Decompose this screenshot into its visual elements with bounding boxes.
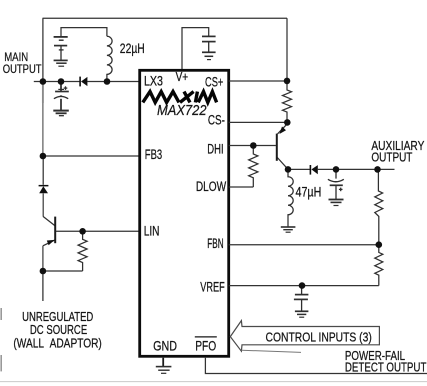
capacitor C3 (V+ bypass) xyxy=(202,36,216,59)
svg-text:V+: V+ xyxy=(176,70,189,84)
wire left rail to FB3 node xyxy=(42,103,44,156)
transistor Q1 emitter diagonal xyxy=(43,240,55,246)
svg-text:47µH: 47µH xyxy=(296,185,322,200)
svg-text:DHI: DHI xyxy=(207,141,223,156)
svg-text:CONTROL INPUTS (3): CONTROL INPUTS (3) xyxy=(266,329,372,344)
wire left rail from output node down xyxy=(43,82,140,185)
svg-text:FBN: FBN xyxy=(207,236,223,251)
node VREF cap xyxy=(299,282,306,289)
node LIN resistor top xyxy=(79,228,86,235)
svg-text:VREF: VREF xyxy=(200,279,225,294)
capacitor C3 plates xyxy=(202,35,216,37)
wire C4 stem xyxy=(335,169,337,178)
node collector Q2 xyxy=(285,166,292,173)
svg-text:22µH: 22µH xyxy=(120,41,145,56)
wire C2 stem xyxy=(60,82,62,92)
transistor Q1 collector diagonal xyxy=(43,216,55,225)
capacitor C4 plates xyxy=(328,179,344,181)
ground below GND pin xyxy=(156,366,172,368)
transistor Q1 (PNP pass transistor) xyxy=(43,193,55,271)
ground below C4 xyxy=(329,199,344,201)
MAXIM logo xyxy=(143,92,217,103)
node aux cap xyxy=(333,166,340,173)
node cap C2 top xyxy=(58,78,65,85)
wire cap-to-inductor top link xyxy=(61,28,107,37)
node aux output xyxy=(374,166,381,173)
inductor L2 47uH xyxy=(288,169,293,226)
wire C3 stem xyxy=(208,42,210,53)
wire C4 lower stem xyxy=(335,185,337,199)
wire collector node to diode D3 xyxy=(288,168,310,170)
svg-text:(WALL ADAPTOR): (WALL ADAPTOR) xyxy=(13,336,101,351)
wire DHI pin line xyxy=(229,145,276,147)
node emitter bottom xyxy=(40,268,47,275)
wire FBN pin line xyxy=(229,244,379,246)
svg-text:OUTPUT: OUTPUT xyxy=(371,151,412,165)
svg-text:GND: GND xyxy=(153,338,177,353)
resistor R4 (aux to FBN) xyxy=(375,169,383,244)
diode D3 xyxy=(310,165,318,175)
svg-text:LIN: LIN xyxy=(144,224,160,239)
IC U1 MAX722 body xyxy=(140,70,229,356)
wire main output line y=81.5 xyxy=(34,81,80,83)
transistor Q2 emitter diagonal xyxy=(278,124,288,134)
transistor Q1 base bar xyxy=(54,217,56,244)
wire LIN line xyxy=(56,230,140,232)
plus sign C4 xyxy=(339,188,343,190)
wire Q1 emitter down to node xyxy=(42,246,44,271)
wire C2 lower stem xyxy=(60,99,62,111)
transistor Q2 collector diagonal xyxy=(277,158,288,170)
inductor L1 22uH xyxy=(107,36,112,81)
node FB3 xyxy=(40,153,47,160)
node FBN xyxy=(376,241,383,248)
wire right frame drop to CS+ node xyxy=(286,18,288,80)
svg-text:MAX722: MAX722 xyxy=(157,103,207,119)
diode D2 (vertical, above Q1) xyxy=(39,185,49,193)
capacitor C1 (output filter, top-left) xyxy=(54,37,68,66)
svg-text:CS+: CS+ xyxy=(205,75,223,90)
transistor Q1 emitter arrow xyxy=(47,240,55,245)
wire FB3 line xyxy=(43,155,140,157)
wire VREF pin line xyxy=(229,285,379,287)
capacitor C4 (auxiliary output electrolytic) xyxy=(328,169,344,205)
wire diode D3 to aux output xyxy=(318,168,395,170)
wire CS- pin line xyxy=(229,121,288,123)
wire C1 stem xyxy=(60,46,62,61)
scan artifacts at left edge xyxy=(0,308,2,371)
wire R1 bottom to left rail xyxy=(43,270,83,272)
wire GND pin stem xyxy=(162,358,164,367)
arrow CONTROL INPUTS callout xyxy=(230,321,379,352)
resistor R3 (DHI to DLOW) xyxy=(249,146,258,188)
plus sign C2 xyxy=(64,87,68,89)
resistor R5 (FBN to VREF) xyxy=(375,245,383,286)
wire C5 lower stem xyxy=(301,299,303,311)
ground below C3 xyxy=(202,51,216,53)
ground below C5 xyxy=(295,310,309,312)
wire gray stem below main output node xyxy=(42,82,44,103)
artifact sloped line under arrow xyxy=(242,350,302,352)
resistor R2 current sense xyxy=(283,81,292,122)
wire left rail FB3 to diode D2 xyxy=(42,156,44,185)
node CS- xyxy=(284,119,291,126)
wire left frame drop to main output node xyxy=(42,18,44,81)
capacitor C5 (VREF bypass) xyxy=(294,286,309,318)
wire PFO output xyxy=(205,358,427,374)
wire PFO drop xyxy=(205,358,427,374)
capacitor C2 (main output electrolytic) xyxy=(53,82,69,116)
wire V+ riser and bypass branch xyxy=(182,28,209,70)
ground below C1 xyxy=(54,59,68,61)
ground below C2 xyxy=(53,110,69,112)
node DHI xyxy=(250,142,257,149)
capacitor C1 plates xyxy=(54,36,68,38)
wire C5 stem xyxy=(301,286,303,295)
resistor R4 and resistor R5 (FBN divider) xyxy=(375,169,383,285)
resistor R1 (Q1 base-emitter) xyxy=(43,231,87,301)
wire CS+ pin line xyxy=(229,80,287,82)
ground at GND pin xyxy=(156,358,172,374)
svg-text:OUTPUT: OUTPUT xyxy=(3,62,42,76)
wire D2 to Q1 collector xyxy=(42,193,44,216)
wire DLOW pin line xyxy=(229,186,254,188)
svg-text:PFO: PFO xyxy=(195,338,216,353)
svg-text:DLOW: DLOW xyxy=(196,179,226,194)
wire Q2 collector to auxiliary output xyxy=(288,168,395,170)
ground below L2 xyxy=(281,227,296,232)
transistor Q2 emitter arrow xyxy=(279,127,286,135)
wire top frame horizontal xyxy=(43,17,288,19)
svg-text:LX3: LX3 xyxy=(144,73,163,88)
transistor Q2 base bar xyxy=(276,134,278,161)
node main output A xyxy=(40,78,47,85)
svg-text:CS-: CS- xyxy=(208,112,225,127)
svg-text:FB3: FB3 xyxy=(145,147,162,162)
capacitor C2 plates xyxy=(58,88,64,90)
diode D1 (catch diode on main output line) xyxy=(79,77,87,87)
node LX3 xyxy=(104,78,111,85)
wire left rail lower stub xyxy=(42,271,44,301)
transistor Q2 (PNP, auxiliary switch) xyxy=(277,124,288,170)
node CS+ xyxy=(284,78,291,85)
wire CS+/CS- pin lines and resistor R2 xyxy=(229,81,292,187)
capacitor C5 plates xyxy=(295,294,309,296)
svg-text:DETECT OUTPUT: DETECT OUTPUT xyxy=(345,361,427,375)
